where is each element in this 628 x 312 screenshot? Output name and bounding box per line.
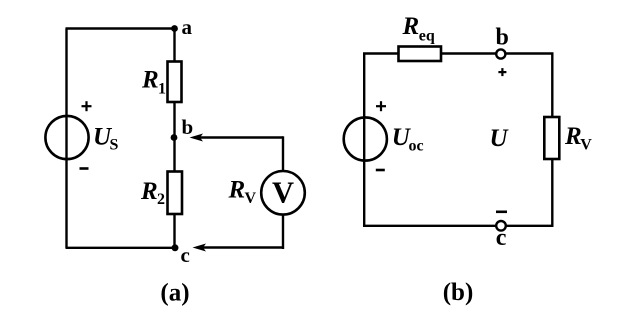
wire: (b) top wire from source through Req to node b and RV	[363, 52, 554, 54]
svg-text:R: R	[228, 177, 246, 204]
svg-text:(a): (a)	[160, 280, 189, 307]
svg-text:S: S	[110, 136, 119, 153]
svg-text:R: R	[141, 67, 159, 94]
resistor R2	[168, 172, 183, 215]
node b terminal (open circle and name)	[496, 25, 509, 59]
wire: (a) bottom wire from source to node c	[66, 247, 177, 249]
label US	[93, 123, 119, 153]
label RV (voltmeter internal resistance)	[228, 177, 257, 207]
polarity - at node c	[496, 211, 507, 214]
node c terminal (open circle and name)	[496, 221, 507, 251]
svg-text:oc: oc	[409, 137, 424, 154]
node c (junction dot and name)	[172, 243, 190, 267]
wire: (a) left branch through source US	[65, 29, 67, 249]
svg-text:(b): (b)	[443, 279, 474, 306]
wire: (a) top wire from source to node a	[66, 27, 176, 29]
svg-text:1: 1	[158, 81, 166, 98]
wire with arrow to node b (voltmeter upper lead)	[190, 134, 284, 173]
wire: (a) middle branch a-R1-b-R2-c	[173, 29, 175, 249]
label Uoc	[392, 124, 424, 154]
wire with arrow to node c (voltmeter lower lead)	[193, 214, 284, 252]
svg-text:R: R	[140, 178, 158, 205]
svg-text:R: R	[564, 123, 582, 150]
label R1	[141, 67, 166, 98]
svg-text:a: a	[182, 15, 193, 39]
voltmeter V (meter circle)	[261, 171, 305, 215]
wire: (b) right branch through RV	[551, 54, 553, 227]
svg-text:V: V	[245, 190, 257, 207]
wire: (b) left branch through source Uoc	[363, 54, 365, 227]
svg-text:c: c	[181, 243, 190, 267]
svg-text:V: V	[580, 137, 592, 154]
voltage source US (circle with polarity)	[45, 101, 91, 168]
svg-text:U: U	[490, 125, 510, 152]
node b (junction dot and name)	[171, 115, 194, 141]
node a (junction dot and name)	[171, 15, 192, 39]
svg-text:eq: eq	[419, 28, 435, 45]
polarity + at node b	[498, 68, 506, 76]
svg-text:b: b	[496, 25, 509, 51]
svg-text:V: V	[272, 175, 294, 209]
label Req	[402, 13, 435, 45]
resistor R1	[168, 62, 182, 103]
svg-text:c: c	[496, 225, 507, 251]
resistor Req	[399, 47, 442, 62]
svg-text:2: 2	[157, 191, 165, 208]
resistor RV (load)	[544, 117, 559, 159]
svg-text:R: R	[402, 13, 420, 40]
label RV	[564, 123, 592, 153]
voltage source Uoc (circle with polarity)	[344, 101, 387, 170]
label R2	[140, 178, 165, 208]
wire: (b) bottom wire through node c	[363, 225, 554, 227]
svg-text:b: b	[182, 115, 194, 139]
